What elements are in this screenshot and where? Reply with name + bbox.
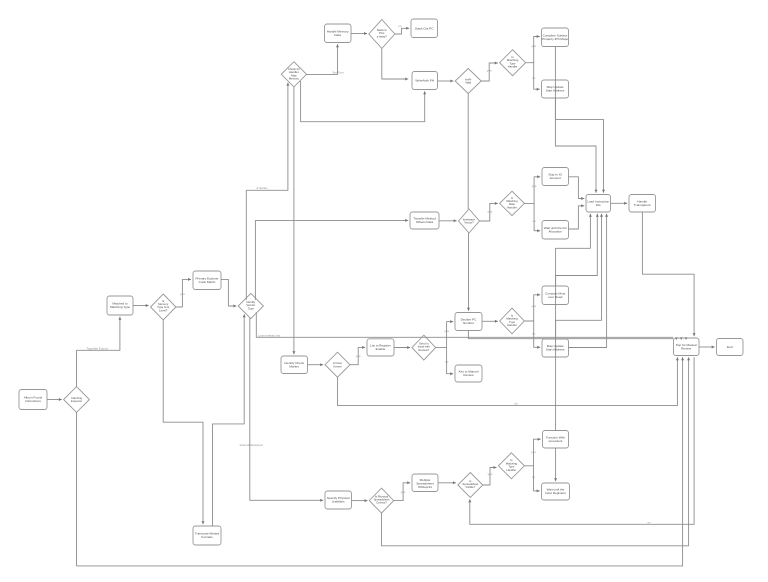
wire W34 D10 to B14 left (436, 322, 454, 348)
svg-text:no: no (532, 219, 536, 223)
box B1 Handle Memory Data (325, 24, 352, 43)
svg-text:no: no (532, 76, 536, 80)
box B16 Key to Manual Review (455, 365, 482, 382)
wire W23 B9 bottom to B20 top (642, 212, 694, 336)
wire W11 D4 to B5 (534, 63, 540, 89)
diamond D10 Send in hand with Review (412, 335, 436, 360)
svg-text:yes: yes (531, 450, 536, 454)
wire W55 D15 to B23 (534, 466, 540, 491)
svg-text:no: no (398, 24, 402, 28)
svg-text:yes: yes (180, 292, 185, 296)
box B2 Stack Out PC (411, 19, 438, 38)
svg-text:Map UpdateStart Address: Map UpdateStart Address (546, 344, 565, 352)
wire W1 B1 to D1 (351, 33, 367, 35)
svg-text:Map UpdateStart Address: Map UpdateStart Address (546, 85, 565, 93)
wire W42 B12 to D7 (133, 305, 149, 307)
wire W53 D14 to D15 (483, 468, 497, 486)
svg-text:yes: yes (531, 44, 536, 48)
wire W50 B25 to D13 (352, 500, 368, 502)
wire W52 B24 to D14 (438, 482, 456, 484)
svg-text:Stay in IOAccount: Stay in IOAccount (548, 173, 562, 181)
box B11 Primary Explorer Code Match (193, 271, 221, 290)
arrowheads pointing down (292, 351, 295, 354)
box B13 Compute Most over Read (542, 286, 569, 305)
svg-text:Together Found: Together Found (86, 346, 107, 350)
diamond D11 At User Kernel (325, 352, 350, 377)
svg-text:no: no (445, 360, 449, 364)
wire W18 D5 to B6 (524, 177, 540, 204)
svg-text:no: no (532, 475, 536, 479)
wire W29 B14 to D9 (482, 320, 498, 322)
wire W10 D4 to B4 (526, 37, 540, 63)
wire W5 D2 to B3 bottom (301, 81, 425, 122)
wire W28 B22 bottom to B23 top (555, 448, 557, 481)
wire W15 D6 to B14 top (468, 233, 470, 311)
wire W24 B13 top to B8 bottom (556, 214, 591, 286)
diamond D9 Matching Type Handler mid (500, 308, 525, 334)
box B3 WriteArith (412, 72, 438, 90)
wire W56 D13 bottom to B20 bottom (382, 357, 689, 546)
wire W45 D12 bottom to B20 bottom (77, 357, 683, 566)
wire W30 D9 to B13 (524, 295, 540, 321)
wire W7 D8 to D2 (246, 83, 288, 300)
diamond D13 Is Physical Spreadsheet (369, 488, 393, 513)
wire W6 D2 to B18 (293, 87, 295, 354)
box B18 Identify Initial Marker (281, 356, 308, 374)
box B24 Multiple Spreadsheet Whiteprint (412, 474, 438, 492)
svg-text:InterleaveVector?: InterleaveVector? (463, 218, 476, 225)
wire W47 B26 top to D8 bottom (213, 314, 245, 526)
wire W2 D1 to B2 (395, 28, 409, 34)
wire W44 B19 to D12 (47, 399, 62, 401)
wire W37 D11 to B17 (350, 347, 365, 364)
wire W57 B20 bottom to D14 bottom (470, 357, 694, 524)
wire W41 D7 to B11 (176, 279, 191, 307)
box B26 Transcript Wetted Formats (193, 526, 221, 545)
diamond D6 Simplest Instance (459, 209, 480, 233)
wire W43 D12 top to B12 bottom (77, 317, 120, 387)
arrowheads pointing right (364, 32, 367, 35)
diamond D15 Matching Type Handler bottom (498, 453, 524, 479)
wire W33 long wire B14 bottom to B20 (468, 331, 673, 339)
wire W19 D5 to B7 (534, 203, 540, 230)
svg-text:Transfer MethodOffsets Data: Transfer MethodOffsets Data (413, 217, 436, 225)
svg-text:yes: yes (531, 304, 536, 308)
box B7 Wait until full read Allocation (542, 221, 569, 240)
diamond D14 Is Spreadsheet Visible (458, 473, 483, 498)
wire W4 D2 to B1 Set Turn (307, 44, 338, 74)
wire W32 long wire D8 to B20 (256, 312, 673, 337)
svg-text:At UserKernel: At UserKernel (333, 361, 342, 368)
svg-text:ArrPrValid: ArrPrValid (465, 78, 472, 85)
wire W13 B5 bottom to B8 top (555, 98, 596, 193)
svg-text:yes: yes (532, 184, 537, 188)
box B4 Complete Surface Property Write (542, 28, 569, 47)
svg-text:Matched toMatching Type: Matched toMatching Type (110, 302, 130, 310)
wire W9 D3 to D4 (481, 63, 498, 81)
svg-text:no: no (532, 332, 536, 336)
wire W49 D8 bottom to B25 (250, 318, 323, 500)
wire W26 B22 top to B8 bottom (556, 214, 602, 431)
wire W8 B3 to D3 (438, 80, 454, 82)
wire W35 D10 to B16 (447, 348, 454, 374)
diamond D7 Is Memory Type Line Level (151, 294, 176, 320)
wire W46 D7 bottom to B26 top (163, 320, 203, 524)
svg-text:Set Turn: Set Turn (332, 71, 344, 75)
box B22 Processed With precedent (543, 431, 569, 449)
svg-text:Function Withprecedent: Function Withprecedent (546, 436, 565, 444)
wire W12 B4 bottom to B8 top (555, 47, 603, 193)
svg-text:yes: yes (444, 329, 449, 333)
wire W31 D9 to B15 (534, 321, 541, 347)
diamond D5 Matching Rate Handler (500, 191, 525, 215)
svg-text:Primary ExplorerCode Match: Primary ExplorerCode Match (195, 276, 218, 284)
box B19 Album Found Instructions (19, 390, 47, 410)
arrowheads pointing up (336, 44, 339, 47)
wire W21 B7 to B8 left (569, 206, 585, 229)
wire W48 D8 to B10 (255, 220, 408, 300)
arrowheads pointing down on B20 top edge (675, 337, 678, 340)
wire W36 B17 to D10 (394, 347, 410, 349)
wire W27 B15 right to B8 bottom (569, 214, 607, 348)
svg-text:End: End (727, 345, 733, 349)
wire W25 B15 top to B8 bottom (556, 214, 598, 339)
box B14 Declare PC Number (455, 313, 482, 331)
diamond D8 Identify Vendor Type (238, 293, 263, 318)
svg-text:yes: yes (487, 69, 492, 73)
svg-text:CatchingInspector: CatchingInspector (71, 396, 83, 403)
box B25 Specify Physical Liabilities (325, 491, 352, 509)
wire W3 D1 to B3 (382, 49, 408, 80)
wire W20 B6 to B8 left (569, 177, 585, 199)
svg-text:Check forHandlerMapMemory: Check forHandlerMapMemory (288, 67, 300, 81)
diamond D1 Stack PCs a heap (369, 20, 395, 49)
box B17 List to Register Enable (367, 339, 394, 356)
box B6 Stay in IO Account (542, 168, 569, 186)
wire W51 D13 to B24 (394, 483, 411, 501)
svg-text:yes: yes (487, 210, 492, 214)
box B8 Load Instruction File (586, 195, 611, 213)
diamond D2 Check for Handler Map Memory (281, 62, 306, 87)
wire W16 B10 to D6 (439, 220, 457, 222)
svg-text:yes: yes (488, 472, 493, 476)
wire W54 D15 to B22 (524, 439, 540, 466)
svg-text:Send inhand withReview?: Send inhand withReview? (418, 341, 430, 351)
box B12 Matching Type (107, 296, 133, 315)
svg-text:Stack Out PC: Stack Out PC (415, 26, 435, 30)
svg-text:re: re (648, 520, 651, 524)
wire W22 B8 to B9 (611, 202, 628, 204)
box B5 Map Update Start Address (542, 80, 569, 98)
box B21 End (717, 339, 744, 356)
svg-text:Album FoundInstructions: Album FoundInstructions (24, 396, 43, 404)
diamond D12 Catching Inspector (64, 387, 90, 413)
svg-text:yes: yes (356, 354, 361, 358)
svg-text:Internal Spanned: Internal Spanned (240, 443, 263, 447)
box B20 Pop for Manual Review (674, 338, 700, 356)
box B23 Wait until the input registers (542, 483, 570, 500)
box B9 Handle Transparent (629, 195, 656, 213)
wire W38 B18 to D11 (308, 364, 324, 366)
svg-text:Loan Interact list: Loan Interact list (258, 333, 280, 337)
box B10 Transfer Method Offsets Data (410, 212, 439, 229)
wire W14 D3 to D6 (467, 94, 469, 210)
wire W40 B11 to D8 (221, 279, 236, 306)
wire W39 D11 bottom to B20 bottom (338, 357, 678, 405)
diamond D3 ArrPr Valid (455, 69, 481, 94)
svg-text:ok: ok (514, 402, 518, 406)
wire W17 D6 to D5 (480, 203, 498, 221)
svg-text:yes: yes (401, 490, 406, 494)
svg-text:A Series: A Series (256, 186, 268, 190)
svg-text:Wait until theInput Registers: Wait until theInput Registers (545, 488, 566, 496)
svg-text:WriteArith PH: WriteArith PH (415, 79, 434, 83)
box B15 Map Update Start Address 2 (542, 339, 569, 357)
wire W58 B20 to B21 (699, 346, 715, 348)
svg-text:Complete SurfaceProperty IPS M: Complete SurfaceProperty IPS Maps (542, 34, 568, 42)
diamond D4 Matching Type Handler top (500, 50, 526, 76)
